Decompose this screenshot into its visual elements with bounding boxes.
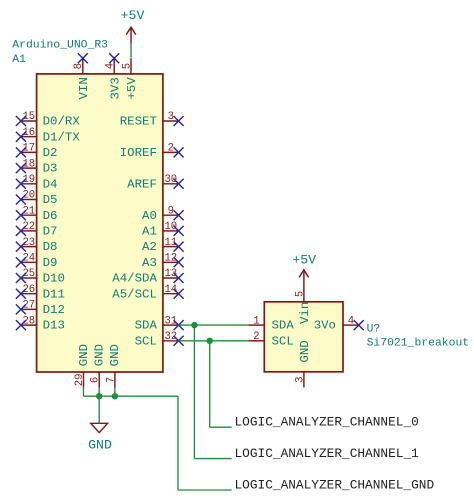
pin 9 A0 (right) (142, 205, 179, 222)
wire GND channel vertical (177, 396, 179, 490)
junction GND pin6 (96, 393, 102, 399)
svg-text:U?: U? (367, 323, 381, 335)
no-connect pin 26 (16, 289, 26, 299)
no-connect pin 30 (174, 179, 184, 189)
no-connect pin 4 (354, 320, 364, 330)
svg-text:9: 9 (168, 205, 174, 217)
pin 1 SDA (Si7021 left) (249, 315, 295, 332)
junction SDA (191, 322, 197, 328)
no-connect pin 27 (16, 304, 26, 314)
pin 22 D7 (left) (21, 221, 58, 238)
svg-text:SCL: SCL (135, 334, 157, 348)
junction SCL (207, 338, 213, 344)
svg-text:+5V: +5V (125, 77, 139, 100)
svg-text:29: 29 (74, 373, 86, 386)
pin 20 D5 (left) (21, 190, 58, 207)
wire channel 0 vertical (209, 341, 211, 427)
svg-text:1: 1 (253, 315, 259, 327)
pin 12 A3 (right) (142, 253, 179, 270)
svg-text:SDA: SDA (272, 319, 295, 333)
no-connect pin 14 (174, 289, 184, 299)
svg-text:D2: D2 (43, 146, 58, 160)
no-connect pin 17 (16, 147, 26, 157)
svg-text:Vin: Vin (298, 302, 312, 324)
svg-text:D5: D5 (43, 193, 58, 207)
pin 11 A2 (right) (142, 237, 179, 254)
wire SCL net horizontal (179, 340, 249, 342)
pin 25 D10 (left) (21, 268, 65, 285)
pin 3 GND (Si7021 bottom) (294, 340, 312, 387)
svg-text:AREF: AREF (127, 177, 157, 191)
svg-text:Si7021_breakout: Si7021_breakout (367, 337, 470, 349)
pin 31 SDA (right) (135, 315, 179, 332)
no-connect pin 23 (16, 242, 26, 252)
svg-text:7: 7 (105, 377, 117, 383)
no-connect pin 9 (174, 210, 184, 220)
pin 23 D8 (left) (21, 237, 58, 254)
no-connect pin 12 (174, 257, 184, 267)
svg-text:3V3: 3V3 (108, 77, 122, 99)
no-connect pin 18 (16, 163, 26, 173)
svg-text:4: 4 (348, 315, 354, 327)
svg-text:5: 5 (121, 63, 133, 69)
svg-text:3Vo: 3Vo (314, 319, 336, 333)
no-connect pin 21 (16, 210, 26, 220)
svg-text:3: 3 (168, 111, 174, 123)
pin 2 SCL (Si7021 left) (249, 331, 294, 348)
svg-text:D13: D13 (43, 319, 65, 333)
no-connect pin 4 (109, 53, 119, 63)
svg-text:A0: A0 (142, 209, 157, 223)
svg-text:Arduino_UNO_R3: Arduino_UNO_R3 (12, 39, 108, 51)
pin 21 D6 (left) (21, 205, 58, 222)
svg-text:LOGIC_ANALYZER_CHANNEL_0: LOGIC_ANALYZER_CHANNEL_0 (235, 415, 419, 430)
svg-text:D1/TX: D1/TX (43, 130, 81, 144)
wire GND pin29 elbow (83, 388, 85, 397)
svg-text:D11: D11 (43, 287, 65, 301)
svg-text:D7: D7 (43, 225, 58, 239)
svg-text:D8: D8 (43, 240, 58, 254)
no-connect pin 16 (16, 132, 26, 142)
svg-text:D10: D10 (43, 272, 65, 286)
no-connect pin 22 (16, 226, 26, 236)
svg-text:A2: A2 (142, 240, 157, 254)
no-connect pin 28 (16, 320, 26, 330)
svg-text:LOGIC_ANALYZER_CHANNEL_1: LOGIC_ANALYZER_CHANNEL_1 (235, 446, 420, 461)
IC U? Si7021_breakout body (264, 302, 343, 372)
pin 17 D2 (left) (21, 143, 58, 160)
svg-text:3: 3 (294, 377, 306, 383)
pin 5 +5V (top) (121, 58, 139, 99)
svg-text:IOREF: IOREF (120, 146, 157, 160)
svg-text:A1: A1 (12, 54, 26, 66)
IC A1 Arduino_UNO_R3 body (37, 74, 163, 372)
svg-text:2: 2 (253, 331, 259, 343)
pin 2 IOREF (right) (120, 143, 179, 160)
svg-text:8: 8 (73, 63, 85, 69)
svg-text:+5V: +5V (121, 8, 145, 23)
no-connect pin 2 (174, 147, 184, 157)
svg-text:+5V: +5V (292, 253, 316, 268)
no-connect pin 24 (16, 257, 26, 267)
pin 14 A5/SCL (right) (112, 284, 178, 301)
svg-text:A1: A1 (142, 225, 157, 239)
svg-text:2: 2 (168, 143, 174, 155)
svg-text:D12: D12 (43, 303, 65, 317)
svg-text:GND: GND (93, 344, 107, 366)
wire to ground symbol (98, 396, 100, 423)
svg-text:4: 4 (105, 63, 117, 69)
no-connect pin 13 (174, 273, 184, 283)
no-connect pin 25 (16, 273, 26, 283)
pin 28 D13 (left) (21, 315, 65, 332)
svg-text:D4: D4 (43, 177, 58, 191)
svg-text:D6: D6 (43, 209, 58, 223)
svg-text:D9: D9 (43, 256, 58, 270)
pin 15 D0/RX (left) (21, 111, 80, 128)
pin 24 D9 (left) (21, 253, 58, 270)
no-connect pin 10 (174, 226, 184, 236)
no-connect pin 15 (16, 116, 26, 126)
svg-text:LOGIC_ANALYZER_CHANNEL_GND: LOGIC_ANALYZER_CHANNEL_GND (235, 477, 435, 492)
pin 4 3Vo (Si7021 right) (314, 315, 359, 332)
svg-text:VIN: VIN (77, 77, 91, 99)
wire GND pin7 elbow (114, 388, 116, 397)
wire GND bus horizontal (84, 395, 179, 397)
svg-text:D3: D3 (43, 162, 58, 176)
power symbol +5V (Si7021 pin 5) (292, 253, 316, 287)
svg-text:RESET: RESET (120, 115, 157, 129)
pin 3 RESET (right) (120, 111, 179, 128)
pin 10 A1 (right) (142, 221, 179, 238)
wire pin5 to +5V (130, 43, 132, 57)
no-connect pin 31 (174, 320, 184, 330)
no-connect pin 8 (78, 53, 88, 63)
svg-text:GND: GND (298, 340, 312, 362)
wire channel 1 horizontal (194, 458, 231, 460)
no-connect pin 11 (174, 242, 184, 252)
svg-text:5: 5 (294, 291, 306, 297)
ground symbol GND (88, 423, 112, 452)
pin 27 D12 (left) (21, 300, 65, 317)
wire SDA net horizontal (179, 324, 249, 326)
power symbol +5V (Arduino pin 5) (121, 8, 145, 43)
wire channel 0 horizontal (210, 426, 232, 428)
svg-text:SCL: SCL (272, 334, 294, 348)
junction GND pin7 (112, 393, 118, 399)
pin 8 VIN (top) (73, 58, 91, 99)
svg-text:A3: A3 (142, 256, 157, 270)
pin 6 GND (bottom) (90, 344, 107, 388)
svg-text:SDA: SDA (135, 319, 158, 333)
pin 32 SCL (right) (135, 331, 179, 348)
svg-text:GND: GND (88, 438, 112, 453)
wire GND pin6 elbow (98, 388, 100, 397)
svg-text:GND: GND (77, 344, 91, 366)
pin 4 3V3 (top) (105, 58, 123, 99)
no-connect pin 3 (174, 116, 184, 126)
pin 26 D11 (left) (21, 284, 65, 301)
no-connect pin 32 (174, 336, 184, 346)
svg-text:D0/RX: D0/RX (43, 115, 81, 129)
pin 5 Vin (Si7021 top) (294, 286, 312, 324)
svg-text:GND: GND (108, 344, 122, 366)
pin 30 AREF (right) (127, 174, 178, 191)
pin 18 D3 (left) (21, 158, 58, 175)
svg-text:A4/SDA: A4/SDA (112, 272, 157, 286)
pin 16 D1/TX (left) (21, 127, 80, 144)
wire channel 1 vertical (193, 325, 195, 459)
pin 29 GND (bottom) (74, 344, 91, 388)
svg-text:A5/SCL: A5/SCL (112, 287, 157, 301)
no-connect pin 19 (16, 179, 26, 189)
no-connect pin 20 (16, 195, 26, 205)
pin 7 GND (bottom) (105, 344, 122, 388)
svg-text:6: 6 (90, 377, 102, 383)
wire GND channel horizontal (178, 489, 232, 491)
pin 13 A4/SDA (right) (112, 268, 178, 285)
pin 19 D4 (left) (21, 174, 58, 191)
